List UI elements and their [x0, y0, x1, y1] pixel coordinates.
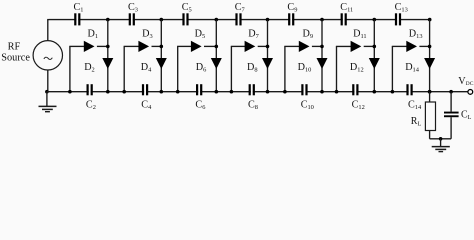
wire anode riser stage 3 — [177, 46, 179, 91]
svg-text:RF: RF — [8, 42, 21, 53]
node column 3 (bottom rail) — [215, 90, 219, 94]
wire column stage 2 — [160, 20, 162, 92]
wire bottom DC rail — [47, 91, 89, 93]
node column 6 (bottom rail) — [373, 90, 377, 94]
diode D2 — [102, 58, 113, 69]
capacitor C10 — [301, 84, 303, 95]
wire diode row stage 1 — [69, 45, 85, 47]
node column 4 (bottom rail) — [266, 90, 270, 94]
wire anode riser stage 2 — [123, 46, 125, 91]
wire column stage 6 — [373, 20, 375, 92]
wire column stage 3 — [215, 20, 217, 92]
node riser 1 (bottom rail) — [68, 90, 72, 94]
node riser 2 (bottom rail) — [122, 90, 126, 94]
resistor RL — [425, 102, 435, 131]
node row junction 5 — [320, 45, 324, 49]
diode D10 — [317, 58, 328, 69]
capacitor C6 — [196, 84, 198, 95]
wire anode riser stage 7 — [391, 46, 393, 91]
capacitor C4 — [142, 84, 144, 95]
node riser 3 (bottom rail) — [176, 90, 180, 94]
capacitor C12 — [352, 84, 354, 95]
wire column stage 1 — [107, 20, 109, 92]
wire diode row stage 6 — [336, 45, 352, 47]
wire top AC rail — [49, 19, 76, 21]
node n3 (top rail) — [215, 18, 219, 22]
wire diode row stage 5 — [284, 45, 300, 47]
diode D11 — [351, 41, 362, 52]
node n5 (top rail) — [320, 18, 324, 22]
node source-ground junction — [45, 90, 49, 94]
wire source top stub — [47, 20, 49, 41]
capacitor C8 — [249, 84, 251, 95]
wire RL top stub — [429, 92, 431, 102]
wire column stage 5 — [321, 20, 323, 92]
node row junction 2 — [160, 45, 164, 49]
node column 7 (bottom rail) — [428, 90, 432, 94]
node riser 6 (bottom rail) — [335, 90, 339, 94]
node row junction 6 — [373, 45, 377, 49]
node column 1 (bottom rail) — [106, 90, 110, 94]
wire column stage 7 — [429, 20, 431, 92]
wire RL bottom stub — [429, 131, 431, 139]
diode D13 — [406, 41, 417, 52]
node row junction 1 — [106, 45, 110, 49]
diode D9 — [299, 41, 310, 52]
wire column stage 4 — [267, 20, 269, 92]
wire source bottom stub — [47, 70, 49, 92]
node n6 (top rail) — [373, 18, 377, 22]
node row junction 3 — [215, 45, 219, 49]
wire anode riser stage 6 — [336, 46, 338, 91]
wire output ground link — [430, 138, 452, 140]
node top rail right end corner — [428, 18, 432, 22]
ground (input) — [46, 92, 48, 106]
wire anode riser stage 5 — [284, 46, 286, 91]
wire diode row stage 2 — [124, 45, 140, 47]
ground (output) — [440, 139, 442, 146]
node row junction 7 — [428, 45, 432, 49]
diode D5 — [191, 41, 202, 52]
capacitor CL — [444, 112, 459, 114]
node output junction (CL top) — [449, 90, 453, 94]
ac source V1 (RF source) — [33, 41, 62, 70]
diode D3 — [138, 41, 149, 52]
node column 2 (bottom rail) — [160, 90, 164, 94]
capacitor C9 — [288, 13, 290, 25]
capacitor C3 — [129, 13, 131, 25]
capacitor C13 — [395, 13, 397, 25]
capacitor C5 — [182, 13, 184, 25]
node n1 (top rail) — [106, 18, 110, 22]
capacitor C14 — [406, 84, 408, 95]
capacitor C2 — [87, 84, 89, 95]
diode D4 — [156, 58, 167, 69]
wire anode riser stage 4 — [230, 46, 232, 91]
node output junction (RL top) — [428, 90, 432, 94]
diode D6 — [211, 58, 222, 69]
wire CL top stub — [450, 92, 452, 112]
svg-text:Source: Source — [1, 53, 30, 64]
wire diode row stage 4 — [231, 45, 246, 47]
diode D14 — [424, 58, 435, 69]
terminal VDC (open circle) — [468, 90, 473, 95]
wire CL bottom stub — [450, 117, 452, 139]
capacitor C1 — [74, 13, 76, 25]
node n4 (top rail) — [266, 18, 270, 22]
node row junction 4 — [266, 45, 270, 49]
wire diode row stage 3 — [177, 45, 192, 47]
node ground link junction — [439, 137, 443, 141]
wire diode row stage 7 — [392, 45, 408, 47]
node column 5 (bottom rail) — [320, 90, 324, 94]
node n2 (top rail) — [160, 18, 164, 22]
capacitor C7 — [235, 13, 237, 25]
node riser 7 (bottom rail) — [391, 90, 395, 94]
capacitor C11 — [341, 13, 343, 25]
diode D1 — [84, 41, 95, 52]
wire anode riser stage 1 — [69, 46, 71, 91]
diode D7 — [245, 41, 256, 52]
node riser 5 (bottom rail) — [283, 90, 287, 94]
diode D8 — [262, 58, 273, 69]
node riser 4 (bottom rail) — [230, 90, 234, 94]
diode D12 — [369, 58, 380, 69]
